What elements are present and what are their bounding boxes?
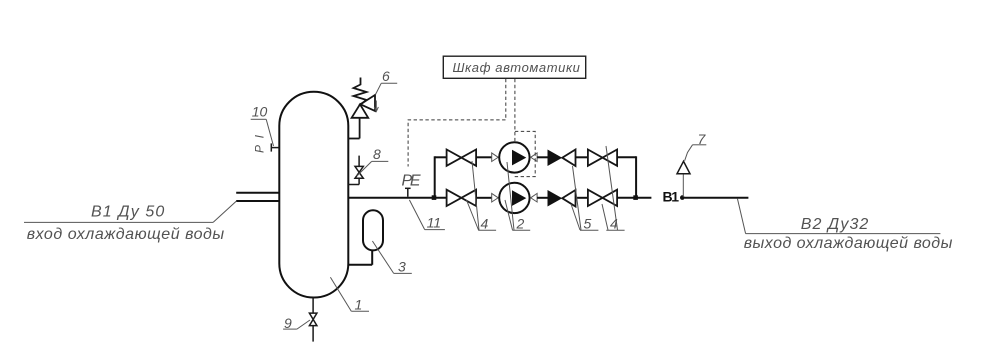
- pipe top-right to riser: [617, 156, 636, 158]
- valve 8 pipe to tank: [348, 184, 359, 186]
- safety valve 6 side triangle: [360, 95, 375, 111]
- check valve 5 bottom (open half): [562, 190, 575, 207]
- svg-text:8: 8: [373, 146, 381, 162]
- pipe valve to pump inlet (top): [476, 156, 492, 158]
- vessel 3 pipe vertical: [371, 250, 373, 265]
- pipe check valve to right valve (bottom): [576, 197, 588, 199]
- gate valve 4 bottom-right: [588, 190, 617, 206]
- safety valve 6 bottom triangle: [352, 104, 369, 118]
- pump 2 bottom inlet nozzle: [492, 193, 499, 202]
- drain pipe below valve 9: [312, 326, 314, 342]
- pipe pump to check valve (bottom): [537, 197, 547, 199]
- underline 1: [351, 310, 369, 312]
- outlet pipe B1 to right: [685, 197, 749, 199]
- pump 2 top outlet nozzle: [531, 153, 537, 162]
- pipe check valve to right valve (top): [576, 156, 588, 158]
- underline 9: [283, 328, 297, 330]
- junction dot left riser: [432, 195, 437, 200]
- leader 6: [376, 83, 382, 94]
- pipe bottom-right to B1 gap: [617, 197, 651, 199]
- label line B2 diagonal: [737, 199, 745, 234]
- leader 8: [357, 161, 372, 176]
- gate valve 4 top-right: [588, 150, 617, 166]
- svg-text:В1 Ду 50: В1 Ду 50: [91, 204, 164, 221]
- valve 8 body (vertical bowtie): [355, 166, 363, 178]
- svg-text:В1: В1: [663, 189, 680, 205]
- dashed box around pump actuator: [514, 131, 536, 176]
- left riser: [434, 156, 436, 198]
- pump 2 top inlet nozzle: [492, 153, 499, 162]
- safety valve 6 spring: [354, 78, 367, 105]
- leaders 2 (pumps): [505, 162, 514, 230]
- svg-text:6: 6: [382, 68, 390, 84]
- check valve 5 top (filled half): [548, 150, 563, 167]
- label line B2 underline: [746, 233, 941, 235]
- leader 10: [266, 119, 273, 146]
- PI tap crossbar: [270, 143, 272, 151]
- svg-text:4: 4: [610, 215, 618, 231]
- check valve 5 top (open half): [562, 150, 575, 167]
- svg-text:9: 9: [284, 315, 292, 331]
- leader 3: [372, 241, 393, 273]
- junction dot right riser: [633, 195, 638, 200]
- PI tap line on tank wall: [271, 147, 279, 149]
- vessel 3 pipe horizontal to tank: [348, 264, 372, 266]
- safety valve 6 connection pipe (horizontal): [348, 138, 360, 140]
- leader 1: [330, 277, 351, 311]
- svg-text:В2 Ду32: В2 Ду32: [801, 216, 869, 233]
- pipe valve to pump inlet (bottom): [476, 197, 492, 199]
- underline 2: [512, 229, 530, 231]
- svg-text:2: 2: [516, 215, 525, 231]
- svg-text:Шкаф автоматики: Шкаф автоматики: [453, 60, 580, 75]
- B1 node dot: [680, 195, 685, 200]
- svg-text:выход охлаждающей воды: выход охлаждающей воды: [744, 235, 953, 252]
- inlet double pipe B1 (lower line): [236, 200, 279, 202]
- underline 5: [580, 229, 598, 231]
- dashed control line to pump: [514, 79, 516, 141]
- valve 8 pipe lower: [358, 178, 360, 184]
- air vent 7 triangle: [677, 161, 690, 174]
- air vent 7 stem: [682, 174, 684, 197]
- main outlet pipe (bottom row) tank to left valve: [348, 197, 446, 199]
- underline 8: [372, 160, 389, 162]
- underline 6: [381, 82, 397, 84]
- check valve 5 bottom (filled half): [548, 190, 563, 207]
- svg-text:3: 3: [398, 259, 406, 275]
- label line B1 Du50 (diagonal to pipe): [213, 201, 236, 222]
- safety valve 6 discharge arrow: [374, 101, 378, 112]
- underline 4 right: [606, 229, 624, 231]
- right riser: [635, 156, 637, 198]
- svg-text:1: 1: [355, 297, 363, 313]
- leader 11: [409, 200, 424, 230]
- pump 2 (bottom) impeller triangle: [512, 190, 526, 206]
- pump 2 (top) impeller triangle: [512, 150, 526, 166]
- svg-text:PE: PE: [402, 172, 421, 189]
- gate valve 4 top-left: [447, 150, 477, 166]
- PE sensor tick: [407, 188, 409, 197]
- svg-text:10: 10: [252, 104, 268, 120]
- automation cabinet box: [443, 56, 585, 78]
- underline 11: [425, 229, 445, 231]
- pump 2 bottom outlet nozzle: [531, 193, 537, 202]
- svg-text:5: 5: [584, 215, 592, 231]
- pump 2 (bottom) circle: [499, 183, 529, 213]
- bottom row: gate valve 4 bottom-left: [447, 190, 477, 206]
- label line B1 Du50 (underline): [24, 221, 213, 223]
- expansion vessel 3 (capsule): [363, 210, 383, 250]
- leader 7: [685, 145, 693, 161]
- dashed control line to PE: [408, 79, 506, 167]
- drain valve 8 pipe upper: [358, 156, 360, 167]
- svg-text:7: 7: [698, 131, 707, 147]
- safety valve 6 connection pipe (vertical): [359, 117, 361, 138]
- underline 10: [251, 118, 267, 120]
- top row pipe riser to valve: [435, 156, 447, 158]
- svg-text:вход охлаждающей воды: вход охлаждающей воды: [27, 226, 225, 243]
- drain pipe bottom of tank: [312, 298, 314, 314]
- leader 9: [297, 320, 310, 329]
- tank 1 (receiver vessel body): [279, 92, 348, 298]
- PE sensor crossbar: [405, 187, 411, 189]
- pipe pump to check valve (top): [537, 156, 547, 158]
- underline 3: [394, 272, 412, 274]
- pump 2 (top) circle: [499, 142, 529, 172]
- svg-text:4: 4: [481, 215, 489, 231]
- underline 4 left: [478, 229, 496, 231]
- underline 7: [693, 144, 707, 146]
- drain valve 9 (vertical bowtie): [309, 313, 317, 326]
- svg-text:11: 11: [427, 215, 441, 231]
- leaders 4 (left pair): [467, 161, 480, 230]
- inlet double pipe B1 (upper line): [236, 192, 279, 194]
- leaders 5 (check valves): [571, 166, 581, 230]
- leaders 4 (right pair): [602, 146, 618, 230]
